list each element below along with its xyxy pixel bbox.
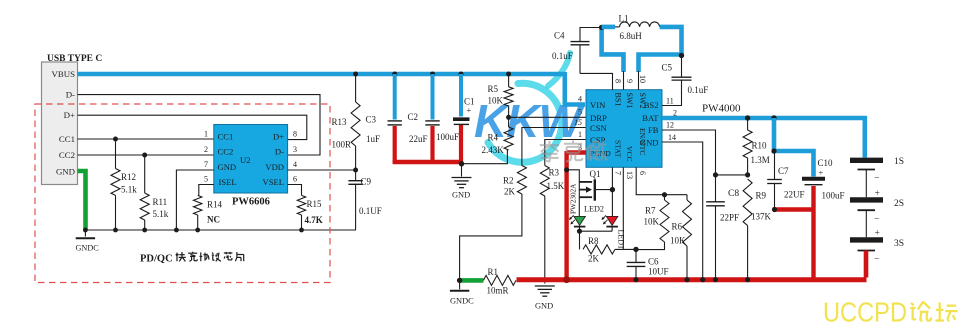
- node LED2/R8 junction: [577, 229, 582, 234]
- svg-text:−: −: [874, 215, 879, 225]
- svg-text:C5: C5: [662, 63, 673, 73]
- wire CSN: [522, 128, 586, 166]
- svg-text:CC2: CC2: [218, 147, 234, 157]
- pin number 2 (CC2): [204, 145, 208, 154]
- node EN-NTC/R7 junction: [662, 192, 667, 197]
- node CC1/R12 junction: [113, 137, 118, 142]
- svg-text:FB: FB: [648, 125, 659, 135]
- svg-text:C2: C2: [408, 112, 419, 122]
- wire R3 to ground: [544, 196, 546, 284]
- svg-text:U2: U2: [240, 155, 251, 165]
- wire SW1 blue: [602, 28, 624, 90]
- node ground-rail junction x=197.7: [195, 228, 200, 233]
- pin number 3 (PGND): [578, 143, 582, 152]
- node BAT/R10 junction: [745, 115, 750, 120]
- svg-text:NC: NC: [207, 215, 220, 225]
- svg-text:C8: C8: [728, 189, 739, 199]
- op-amp U2 PW6606 chip body: [214, 125, 288, 194]
- capacitor C2: [408, 74, 440, 163]
- node ground-rail junction x=176.4: [174, 228, 179, 233]
- wire U1 GND pin: [662, 142, 703, 280]
- pin number 11 (BS2): [666, 96, 674, 105]
- svg-text:9: 9: [625, 79, 634, 83]
- wire VBUS blue rail: [78, 72, 565, 77]
- svg-text:C9: C9: [361, 177, 372, 187]
- USB Type-C connector J1: [42, 54, 103, 185]
- svg-text:R8: R8: [588, 236, 599, 246]
- pin number 7 (GND): [204, 160, 208, 169]
- svg-text:R13: R13: [332, 117, 348, 127]
- node rail junction x=715.5: [713, 277, 718, 282]
- chip label PW6606: [232, 197, 270, 208]
- wire U2 ISEL pin: [199, 185, 214, 196]
- pin number 2 (BAT): [673, 108, 677, 117]
- svg-text:R12: R12: [121, 172, 136, 182]
- svg-text:15: 15: [574, 118, 582, 127]
- svg-text:CC1: CC1: [218, 131, 234, 141]
- svg-text:1uF: 1uF: [366, 134, 380, 144]
- wire D-: [78, 95, 321, 155]
- svg-text:4: 4: [293, 160, 297, 169]
- resistor R1 (10mR shunt): [483, 267, 516, 296]
- svg-text:12: 12: [666, 121, 674, 130]
- wire R1 green segment: [460, 278, 484, 283]
- svg-text:1.5K: 1.5K: [547, 181, 565, 191]
- resistor R5: [488, 74, 514, 117]
- node SW2/C5 junction: [679, 53, 684, 58]
- node rail junction x=636: [633, 277, 638, 282]
- svg-text:5.1k: 5.1k: [153, 209, 169, 219]
- svg-text:Q1: Q1: [590, 169, 601, 179]
- pin number 12 (FB): [666, 121, 674, 130]
- resistor R14: [194, 195, 223, 230]
- svg-text:GNDC: GNDC: [450, 297, 474, 306]
- wire L1 left blue stub: [602, 25, 615, 30]
- resistor R3: [540, 166, 564, 197]
- resistor R6: [670, 195, 692, 280]
- svg-text:GND: GND: [56, 166, 75, 176]
- svg-text:100uF: 100uF: [436, 132, 459, 142]
- wire C7/C10 blue: [774, 118, 814, 177]
- wire CC2: [78, 154, 214, 156]
- wire CSP: [545, 140, 586, 166]
- svg-text:R9: R9: [756, 191, 767, 201]
- node R8/C6/R7 junction: [633, 247, 638, 252]
- watermark KKW logo swoosh arc: [488, 83, 562, 162]
- node VBUS/C2 junction: [430, 72, 435, 77]
- USB pin label CC2: [59, 150, 75, 160]
- node ground-rail junction x=115.5: [113, 228, 118, 233]
- ground GNDC left: [76, 230, 100, 253]
- node FB/C8 junction: [713, 172, 718, 177]
- pin number 6 (EN/NTC): [638, 171, 647, 175]
- svg-text:L1: L1: [619, 14, 629, 24]
- wire cell2-cell3: [865, 210, 867, 237]
- wire BAT blue: [662, 118, 865, 158]
- node CC2/R11 junction: [142, 153, 147, 158]
- LED LED1 (red): [601, 215, 625, 249]
- svg-text:R10: R10: [752, 141, 768, 151]
- wire battery to rail red: [864, 251, 869, 278]
- wire U2 VSEL pin: [288, 185, 302, 196]
- resistor R2: [503, 166, 526, 197]
- svg-text:CC2: CC2: [59, 150, 75, 160]
- svg-text:R15: R15: [307, 199, 323, 209]
- svg-text:2K: 2K: [588, 254, 600, 264]
- svg-text:7: 7: [204, 160, 208, 169]
- watermark chinese text: [540, 141, 607, 162]
- pin number 5 (ISEL): [204, 175, 208, 184]
- node C7 bottom junction: [772, 207, 777, 212]
- svg-text:GND: GND: [452, 191, 470, 200]
- wire DRP: [509, 116, 586, 118]
- svg-text:6: 6: [293, 175, 297, 184]
- USB pin label D+: [64, 110, 75, 120]
- capacitor C3: [366, 74, 402, 163]
- node ground-rail junction x=144.7: [142, 228, 147, 233]
- svg-text:0.1UF: 0.1UF: [359, 206, 382, 216]
- svg-text:10mR: 10mR: [487, 286, 509, 296]
- svg-text:CC1: CC1: [59, 134, 75, 144]
- svg-text:BAT: BAT: [642, 113, 659, 123]
- svg-text:10K: 10K: [670, 236, 686, 246]
- svg-text:C4: C4: [554, 31, 565, 41]
- wire C7/C10 to rail red: [773, 186, 814, 281]
- svg-text:C6: C6: [648, 257, 659, 267]
- svg-text:R5: R5: [488, 84, 499, 94]
- svg-text:R11: R11: [153, 197, 168, 207]
- svg-text:2K: 2K: [504, 187, 516, 197]
- resistor R12: [111, 139, 137, 230]
- USB pin label D-: [66, 90, 75, 100]
- svg-text:2: 2: [204, 145, 208, 154]
- ground GND (below R3): [535, 286, 555, 311]
- node rail junction x=687: [684, 277, 689, 282]
- wire protocol ground rail: [85, 229, 356, 231]
- battery cell 1S: [850, 157, 904, 184]
- svg-text:VDD: VDD: [265, 162, 284, 172]
- USB pin label CC1: [59, 134, 75, 144]
- svg-text:GND: GND: [535, 302, 553, 311]
- wire U2 VDD to R13/C9 node: [288, 169, 356, 171]
- USB pin label GND: [56, 166, 75, 176]
- node R5/R4/DRP junction: [506, 115, 511, 120]
- svg-text:8: 8: [293, 130, 297, 139]
- svg-text:D-: D-: [66, 90, 75, 100]
- pin number 1 (CSP): [578, 130, 582, 139]
- svg-text:R2: R2: [503, 176, 514, 186]
- wire cap-bar to R4 bottom: [462, 150, 508, 164]
- svg-text:LED1: LED1: [617, 230, 626, 250]
- svg-text:100uF: 100uF: [822, 191, 845, 201]
- pin number 9 (SW1): [625, 79, 634, 83]
- node VBUS/C3 junction: [392, 72, 397, 77]
- wire STAT pin to LED1: [611, 167, 613, 216]
- svg-text:0.1uF: 0.1uF: [552, 51, 573, 61]
- svg-text:C7: C7: [778, 166, 789, 176]
- node R10/R9 junction: [745, 172, 750, 177]
- wire LED cathodes: [580, 230, 613, 232]
- svg-text:+: +: [875, 189, 880, 199]
- wire cell1-cell2: [865, 170, 867, 198]
- svg-text:1.3M: 1.3M: [751, 155, 770, 165]
- svg-text:13: 13: [625, 171, 634, 179]
- svg-text:R4: R4: [488, 133, 499, 143]
- capacitor C10 (polarized): [802, 158, 845, 201]
- node BAT/C7 junction: [771, 115, 776, 120]
- node GNDC/R1 junction: [457, 278, 462, 283]
- svg-text:4.7K: 4.7K: [305, 215, 323, 225]
- svg-text:D+: D+: [64, 110, 75, 120]
- svg-text:UCCPD: UCCPD: [823, 297, 907, 327]
- svg-text:C10: C10: [818, 158, 834, 168]
- svg-text:100R: 100R: [332, 140, 352, 150]
- svg-text:BS1: BS1: [614, 93, 623, 107]
- pin number 6 (VSEL): [293, 175, 297, 184]
- pin number 13 (VCC): [625, 171, 634, 179]
- svg-text:R3: R3: [549, 168, 560, 178]
- node ground-rail junction x=301.5: [299, 228, 304, 233]
- node rail junction x=702.7: [700, 277, 705, 282]
- svg-text:SW1: SW1: [625, 93, 634, 109]
- svg-text:22PF: 22PF: [720, 213, 739, 223]
- svg-text:R14: R14: [207, 200, 223, 210]
- ground GND (input caps): [452, 164, 472, 200]
- svg-text:11: 11: [666, 96, 674, 105]
- svg-text:R1: R1: [488, 267, 499, 277]
- node Q1-drain/STAT junction: [610, 187, 615, 192]
- svg-text:CSN: CSN: [590, 123, 608, 133]
- wire input cap ground bar (red): [393, 160, 463, 165]
- pin number 5 (DRP): [578, 107, 582, 116]
- wire EN/NTC pin: [636, 167, 687, 194]
- label PD/QC fast-charge protocol chip: [140, 252, 244, 265]
- node rail junction x=747.6: [745, 277, 750, 282]
- node ground-rail junction x=85.4: [83, 228, 88, 233]
- svg-text:−: −: [874, 174, 879, 184]
- node C7 top junction: [771, 148, 776, 153]
- svg-text:PW2302A: PW2302A: [570, 183, 578, 214]
- resistor R15: [297, 195, 322, 230]
- svg-text:GNDC: GNDC: [76, 244, 100, 253]
- wire R2 to GNDC node: [460, 194, 522, 280]
- svg-text:GND: GND: [218, 162, 237, 172]
- capacitor C8: [706, 189, 739, 280]
- pin number 3 (D-): [293, 145, 297, 154]
- svg-text:14: 14: [668, 133, 676, 142]
- capacitor C4: [552, 28, 600, 74]
- node cap ground junction: [459, 161, 464, 166]
- svg-text:R6: R6: [672, 222, 683, 232]
- wire PGND red: [567, 151, 586, 281]
- svg-text:5: 5: [204, 175, 208, 184]
- svg-text:D-: D-: [275, 147, 284, 157]
- svg-text:10K: 10K: [488, 96, 504, 106]
- pin number 14 (GND): [668, 133, 676, 142]
- pin number 10 (SW2): [638, 75, 647, 83]
- wire VCC pin: [622, 167, 624, 249]
- transistor Q1 PW2302A: [567, 169, 613, 216]
- svg-text:+: +: [875, 229, 880, 239]
- capacitor C7: [767, 151, 804, 210]
- node VDD/R13/C9 junction: [353, 168, 358, 173]
- svg-text:6: 6: [638, 171, 647, 175]
- svg-text:VIN: VIN: [590, 100, 606, 110]
- wire main ground rail red: [517, 277, 867, 282]
- inductor L1: [615, 14, 660, 42]
- svg-text:R7: R7: [645, 206, 656, 216]
- chip label PW4000: [702, 103, 741, 115]
- pin number 8 (BS1): [614, 79, 623, 83]
- svg-text:137K: 137K: [751, 212, 772, 222]
- svg-text:STAT: STAT: [614, 140, 623, 158]
- battery cell 3S: [850, 229, 904, 265]
- svg-text:5.1k: 5.1k: [121, 185, 137, 195]
- wire GND green: [78, 171, 86, 230]
- svg-text:DRP: DRP: [590, 113, 607, 123]
- resistor R13: [332, 74, 361, 170]
- node VBUS/R5 junction: [506, 72, 511, 77]
- capacitor C1 (polarized): [436, 74, 475, 163]
- pin number 4 (VDD): [293, 160, 297, 169]
- capacitor C5: [662, 56, 709, 106]
- label UCCPD forum watermark: [823, 297, 958, 327]
- wire D+: [78, 115, 307, 139]
- svg-text:ISEL: ISEL: [219, 177, 237, 187]
- svg-text:1S: 1S: [894, 157, 904, 167]
- node VBUS/R13 junction: [353, 72, 358, 77]
- resistor R7: [636, 195, 669, 250]
- capacitor C6: [627, 249, 669, 279]
- resistor R9: [743, 179, 771, 280]
- dashed boundary PD/QC protocol section: [35, 104, 330, 283]
- svg-text:10: 10: [638, 75, 647, 83]
- svg-text:7: 7: [614, 171, 623, 175]
- svg-text:10K: 10K: [644, 217, 660, 227]
- resistor R4: [482, 117, 514, 155]
- svg-text:EN/NTC: EN/NTC: [638, 128, 647, 155]
- svg-text:VCC: VCC: [625, 146, 634, 162]
- pin number 1 (CC1): [204, 130, 208, 139]
- node VBUS/C1 junction: [459, 72, 464, 77]
- resistor R10: [743, 118, 770, 175]
- svg-text:VSEL: VSEL: [263, 177, 284, 187]
- wire BS1 pin: [580, 73, 613, 89]
- svg-text:1: 1: [204, 130, 208, 139]
- svg-text:SW2: SW2: [638, 93, 647, 109]
- battery cell 2S: [850, 189, 904, 225]
- svg-text:PW4000: PW4000: [702, 103, 741, 115]
- wire CC1: [78, 138, 214, 140]
- svg-text:0.1uF: 0.1uF: [688, 85, 709, 95]
- svg-text:6.8uH: 6.8uH: [620, 31, 643, 41]
- pin number 4 (VIN): [578, 95, 582, 104]
- USB pin label VBUS: [52, 69, 76, 79]
- svg-text:PW6606: PW6606: [232, 197, 270, 208]
- svg-text:3S: 3S: [894, 239, 904, 249]
- svg-text:USB TYPE C: USB TYPE C: [47, 54, 102, 64]
- wire SW2 blue: [639, 55, 682, 90]
- svg-text:5: 5: [578, 107, 582, 116]
- node PGND/Q1-gate junction: [564, 167, 569, 172]
- svg-text:22UF: 22UF: [784, 190, 805, 200]
- svg-text:2S: 2S: [894, 199, 904, 209]
- svg-text:VBUS: VBUS: [52, 69, 76, 79]
- svg-text:22uF: 22uF: [409, 134, 428, 144]
- wire U2 GND pin to rail: [176, 170, 213, 230]
- pin number 7 (STAT): [614, 171, 623, 175]
- svg-text:LED2: LED2: [584, 205, 604, 214]
- svg-text:8: 8: [614, 79, 623, 83]
- wire L1 right blue to SW2: [660, 27, 682, 56]
- node PGND/rail junction: [563, 276, 570, 283]
- svg-text:4: 4: [578, 95, 582, 104]
- svg-text:3: 3: [293, 145, 297, 154]
- svg-text:+: +: [819, 168, 824, 178]
- svg-text:C3: C3: [366, 115, 377, 125]
- svg-text:1: 1: [578, 130, 582, 139]
- LED LED2 (green): [569, 205, 604, 232]
- svg-text:2.43K: 2.43K: [482, 145, 505, 155]
- wire FB to divider: [716, 174, 748, 176]
- svg-text:−: −: [874, 255, 879, 265]
- resistor R11: [140, 155, 169, 230]
- ground GNDC right: [450, 280, 474, 305]
- wire FB: [662, 130, 716, 202]
- svg-text:+: +: [467, 105, 472, 115]
- op-amp U1 PW4000 chip body: [586, 90, 662, 168]
- svg-text:D+: D+: [273, 131, 284, 141]
- pin number 15 (CSN): [574, 118, 582, 127]
- capacitor C9: [348, 170, 381, 230]
- resistor R8: [580, 231, 637, 263]
- wire VBUS elbow to VIN: [565, 72, 585, 105]
- svg-text:10UF: 10UF: [648, 267, 669, 277]
- watermark KKW text: [474, 95, 585, 147]
- svg-text:PD/QC: PD/QC: [140, 254, 173, 265]
- pin number 8 (D+): [293, 130, 297, 139]
- node SW1/L1/C4 junction: [599, 25, 604, 30]
- watermark KKW logo swoosh tail: [548, 53, 570, 86]
